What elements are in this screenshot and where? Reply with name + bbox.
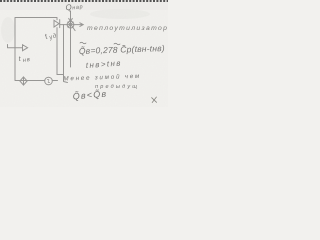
svg-text:нв: нв (22, 57, 31, 64)
svg-text:теплоутилизатор: теплоутилизатор (87, 25, 168, 32)
